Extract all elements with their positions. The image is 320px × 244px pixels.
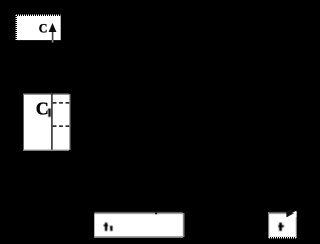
text h1: subscript 1 xyxy=(109,226,112,231)
C-axis line segment crossing box C1 xyxy=(51,93,53,150)
svg-text:C: C xyxy=(36,99,49,119)
text h1: h stem xyxy=(104,223,108,231)
t-axis blurred line along box h1 top xyxy=(94,211,183,214)
label box t (t-axis label) xyxy=(269,212,297,237)
dashed level line lower xyxy=(53,125,70,127)
text C1: subscript 1 xyxy=(48,109,51,117)
label box C1 (dashed level label) xyxy=(24,94,70,150)
t-axis arrowhead tip sliver (white on black) xyxy=(292,211,297,213)
text t xyxy=(278,223,284,231)
t-axis arrowhead lower wedge (dark over white box) xyxy=(286,211,296,218)
dashed level line upper xyxy=(53,102,70,104)
svg-text:C: C xyxy=(39,22,48,36)
white area under arrowhead diagonal xyxy=(287,212,296,217)
C-axis arrow shaft xyxy=(52,31,54,41)
label box h1 (t-axis segment label) xyxy=(94,214,183,238)
axis tick t1 xyxy=(155,213,157,215)
C-axis arrow shaft below box (gray on black) xyxy=(52,40,54,43)
C-axis arrowhead xyxy=(49,23,57,32)
label box C (C-axis label) xyxy=(16,15,61,40)
t-axis blurred line along box t top xyxy=(269,211,296,214)
